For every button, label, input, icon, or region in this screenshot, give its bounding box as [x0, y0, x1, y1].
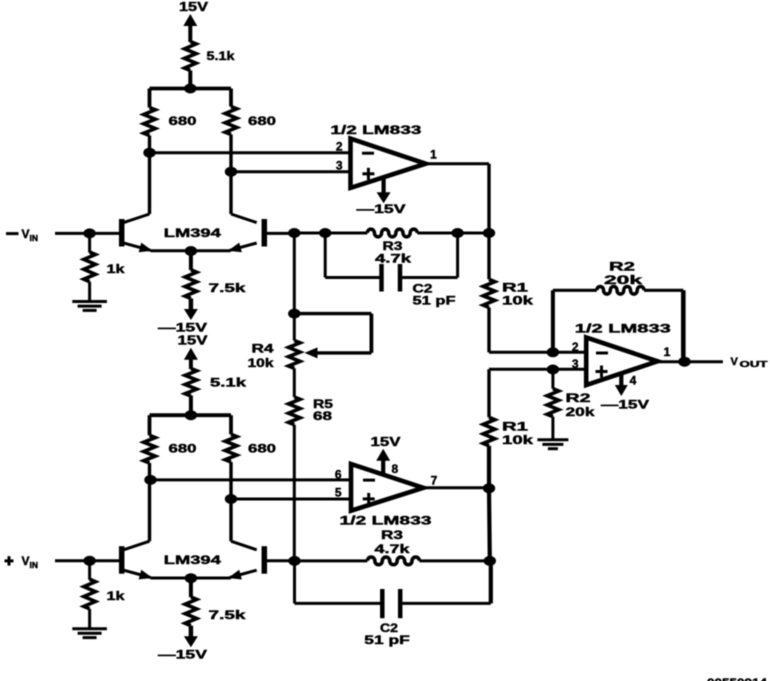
svg-text:680: 680	[248, 441, 276, 455]
svg-text:51 pF: 51 pF	[364, 633, 410, 647]
svg-text:15V: 15V	[371, 435, 402, 449]
svg-text:7.5k: 7.5k	[209, 608, 247, 622]
svg-text:R1: R1	[502, 420, 529, 434]
svg-text:LM394: LM394	[164, 553, 221, 567]
svg-text:51 pF: 51 pF	[413, 294, 456, 308]
svg-text:2: 2	[336, 140, 343, 154]
svg-text:4.7k: 4.7k	[375, 542, 410, 556]
svg-text:1: 1	[430, 148, 437, 162]
svg-text:1: 1	[664, 345, 671, 359]
svg-text:3: 3	[572, 357, 579, 371]
svg-text:R3: R3	[381, 528, 403, 542]
svg-text:10k: 10k	[248, 356, 274, 370]
svg-text:R1: R1	[502, 281, 529, 295]
svg-text:R2: R2	[609, 260, 636, 274]
svg-text:1/2 LM833: 1/2 LM833	[340, 513, 433, 527]
svg-text:5.1k: 5.1k	[210, 376, 246, 390]
svg-text:68: 68	[313, 409, 332, 423]
svg-text:1/2 LM833: 1/2 LM833	[330, 123, 421, 137]
svg-text:3: 3	[336, 159, 343, 173]
svg-text:20k: 20k	[566, 405, 595, 419]
svg-text:8: 8	[392, 462, 399, 476]
svg-text:20k: 20k	[604, 273, 643, 287]
svg-text:680: 680	[169, 441, 197, 455]
svg-text:—15V: —15V	[601, 398, 649, 412]
svg-text:10k: 10k	[502, 294, 533, 308]
svg-text:R2: R2	[566, 391, 592, 405]
svg-text:680: 680	[248, 114, 276, 128]
svg-text:4.7k: 4.7k	[375, 251, 411, 265]
svg-text:680: 680	[169, 114, 197, 128]
svg-text:5.1k: 5.1k	[207, 49, 235, 63]
svg-text:7.5k: 7.5k	[209, 281, 247, 295]
svg-text:00550914: 00550914	[707, 677, 768, 681]
svg-text:4: 4	[630, 374, 637, 388]
svg-text:LM394: LM394	[164, 226, 221, 240]
svg-text:15V: 15V	[178, 334, 209, 348]
svg-text:R4: R4	[252, 342, 274, 356]
svg-text:1k: 1k	[107, 262, 125, 276]
svg-text:15V: 15V	[179, 0, 209, 14]
svg-text:—15V: —15V	[158, 321, 207, 335]
svg-text:1/2 LM833: 1/2 LM833	[575, 322, 672, 336]
svg-text:7: 7	[431, 474, 438, 488]
svg-text:1k: 1k	[107, 589, 125, 603]
svg-text:5: 5	[335, 486, 342, 500]
svg-text:—15V: —15V	[357, 202, 406, 216]
svg-text:10k: 10k	[502, 433, 533, 447]
svg-text:2: 2	[572, 340, 579, 354]
svg-text:—15V: —15V	[158, 648, 207, 662]
svg-text:V: V	[731, 356, 739, 368]
svg-text:OUT: OUT	[740, 360, 768, 369]
svg-text:6: 6	[335, 467, 342, 481]
